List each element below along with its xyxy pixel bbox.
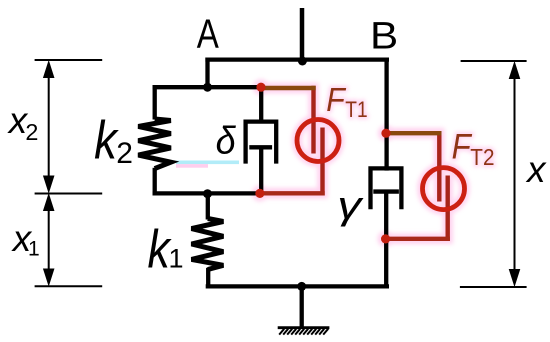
- wire parallel-group top bar: [153, 85, 262, 89]
- node dot red bottom of FT2: [381, 234, 390, 243]
- svg-text:F: F: [326, 81, 346, 119]
- dimension: middle reference line: [35, 193, 103, 195]
- damper G (gamma): [371, 168, 402, 288]
- svg-text:B: B: [370, 15, 398, 58]
- wire input rod: [300, 8, 305, 62]
- svg-text:2: 2: [25, 119, 38, 145]
- force source FT1 wires: [259, 86, 325, 196]
- wire bottom bar: [206, 284, 389, 288]
- label FT2: [452, 128, 473, 167]
- svg-text:1: 1: [28, 238, 40, 261]
- node dot at input/top bar: [298, 57, 307, 66]
- dimension x: top-right reference line: [461, 60, 527, 62]
- svg-text:x: x: [525, 149, 547, 190]
- dimension arrow x2: [44, 62, 54, 193]
- force source FT2 circle: [423, 168, 465, 210]
- spring k1: [192, 191, 224, 288]
- dimension: bottom-left reference line: [35, 285, 103, 287]
- node dot red top of FT2: [381, 129, 390, 138]
- pink artifact line under delta: [176, 164, 208, 168]
- svg-text:F: F: [452, 128, 473, 167]
- label node B: [370, 15, 398, 58]
- node dot red bottom of FT1: [255, 189, 264, 198]
- ground: [278, 328, 330, 335]
- force source FT1 circle: [297, 120, 339, 162]
- label node A: [197, 10, 219, 56]
- svg-text:A: A: [197, 10, 219, 56]
- dimension arrow x: [509, 63, 519, 286]
- svg-text:2: 2: [116, 137, 133, 170]
- spring k2: [138, 85, 171, 196]
- wire parallel-group bottom bar: [153, 191, 261, 195]
- force source FT2 wires: [385, 131, 450, 241]
- label k2: [94, 110, 120, 171]
- dimension: bottom-right reference line: [460, 286, 527, 288]
- wire top bar A-B: [205, 57, 389, 61]
- node dot A branch top: [203, 83, 212, 92]
- dimension x2: top reference line: [35, 59, 103, 61]
- node dot A branch bottom: [203, 189, 212, 198]
- svg-text:δ: δ: [216, 119, 237, 162]
- svg-text:1: 1: [169, 244, 184, 274]
- node dot ground junction: [297, 282, 306, 291]
- cyan artifact line under delta: [176, 161, 239, 165]
- label gamma: [337, 184, 363, 228]
- svg-text:T1: T1: [345, 98, 367, 123]
- label FT1: [326, 81, 346, 119]
- label delta: [216, 119, 237, 162]
- dimension arrow x1: [44, 195, 54, 286]
- node dot red top of FT1: [256, 83, 265, 92]
- wire A vertical: [205, 58, 209, 90]
- ground stem: [300, 284, 304, 327]
- label k1: [148, 219, 172, 280]
- pink halo under red elements: [252, 79, 495, 247]
- damper D (delta): [246, 85, 277, 196]
- svg-text:γ: γ: [337, 184, 363, 228]
- wire B vertical upper: [384, 58, 388, 171]
- svg-text:T2: T2: [470, 144, 494, 170]
